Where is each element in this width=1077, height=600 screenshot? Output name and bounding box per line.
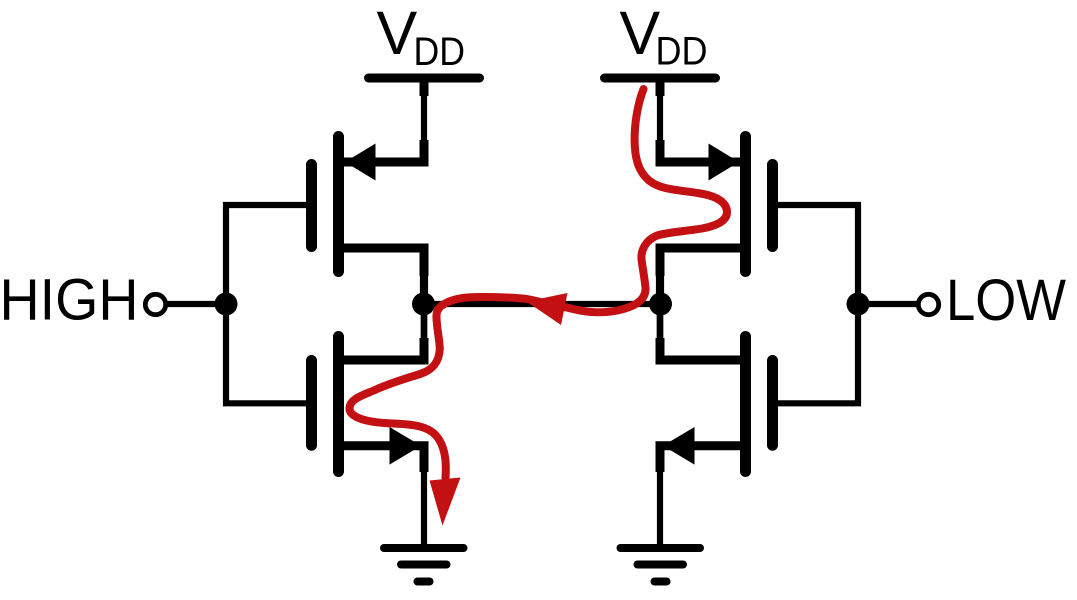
junction output node A (left inverter output) xyxy=(412,293,435,316)
ground right xyxy=(621,548,701,582)
wire stub VDD left xyxy=(420,78,429,96)
svg-text:V: V xyxy=(620,0,661,67)
wire gates of left inverter (input U) xyxy=(226,205,306,403)
transistor Q1 (PMOS, left inverter pull-up) xyxy=(312,137,425,277)
label VDD left xyxy=(377,0,466,74)
transistor Q4 (NMOS, right inverter pull-down) xyxy=(660,337,773,473)
node VDD rail left (power bar) xyxy=(369,74,480,83)
node VDD rail right (power bar) xyxy=(605,74,716,83)
transistor Q2 (NMOS, left inverter pull-down) xyxy=(312,337,425,473)
wire output node B to Q4 drain xyxy=(657,304,664,360)
transistor Q3 (PMOS, right inverter pull-up) xyxy=(660,137,773,277)
wire node right to LOW terminal xyxy=(858,301,917,307)
terminal circle input HIGH xyxy=(145,294,165,314)
junction output node B (right inverter output) xyxy=(649,293,672,316)
wire stub VDD right xyxy=(656,78,665,96)
wire Q3 drain to output node B xyxy=(656,248,664,304)
svg-text:HIGH: HIGH xyxy=(0,268,139,333)
wire node A to node B (shared output bus) xyxy=(424,301,661,307)
wire VDD right to Q3 source xyxy=(657,92,663,146)
terminal circle output LOW xyxy=(918,294,938,314)
wire Q4 source to ground xyxy=(657,446,663,547)
wire output node A to Q2 drain xyxy=(421,304,428,360)
arrowhead current direction (mid, pointing left) xyxy=(527,293,568,325)
junction input node left xyxy=(215,293,238,316)
svg-text:V: V xyxy=(377,0,418,67)
junction input node right xyxy=(847,293,870,316)
wire Q2 source to ground xyxy=(421,446,427,547)
label VDD right xyxy=(620,0,708,74)
wire VDD left to Q1 source xyxy=(421,92,427,146)
svg-text:DD: DD xyxy=(656,30,708,74)
wire HIGH terminal to input node xyxy=(168,301,227,307)
current path (short-circuit current, red) xyxy=(349,89,726,478)
ground left xyxy=(384,548,464,582)
arrowhead current into ground (end, pointing down) xyxy=(430,478,461,526)
wire Q1 drain to output node A xyxy=(420,248,428,304)
svg-text:LOW: LOW xyxy=(946,268,1067,333)
wire gates of right inverter (input U) xyxy=(778,205,858,403)
svg-text:DD: DD xyxy=(414,30,466,74)
